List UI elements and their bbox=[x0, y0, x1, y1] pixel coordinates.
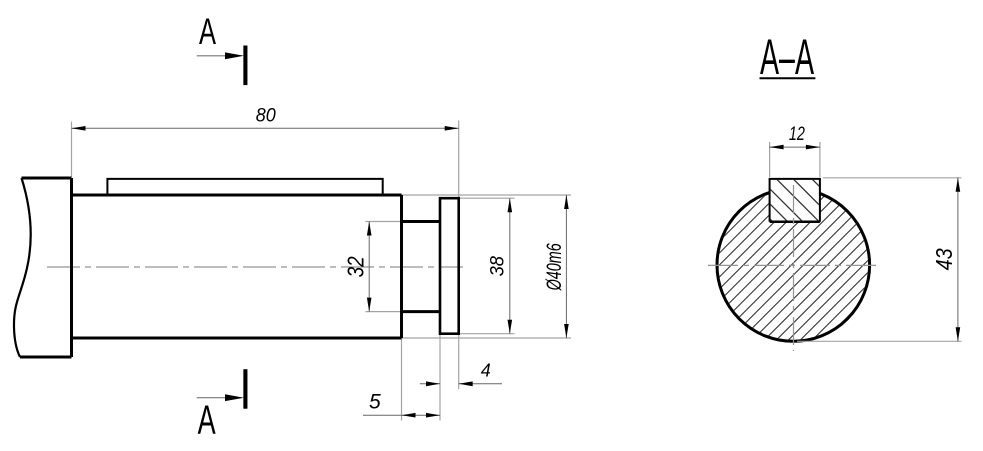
svg-text:5: 5 bbox=[369, 391, 381, 414]
svg-text:32: 32 bbox=[342, 256, 368, 277]
svg-text:80: 80 bbox=[256, 105, 276, 126]
svg-text:43: 43 bbox=[931, 248, 957, 270]
svg-text:A: A bbox=[198, 397, 216, 443]
svg-text:A: A bbox=[199, 10, 216, 52]
svg-text:4: 4 bbox=[481, 361, 491, 381]
svg-text:Ø40m6: Ø40m6 bbox=[543, 243, 566, 291]
svg-text:A–A: A–A bbox=[760, 29, 814, 85]
svg-text:12: 12 bbox=[789, 124, 805, 145]
svg-text:38: 38 bbox=[487, 256, 508, 277]
